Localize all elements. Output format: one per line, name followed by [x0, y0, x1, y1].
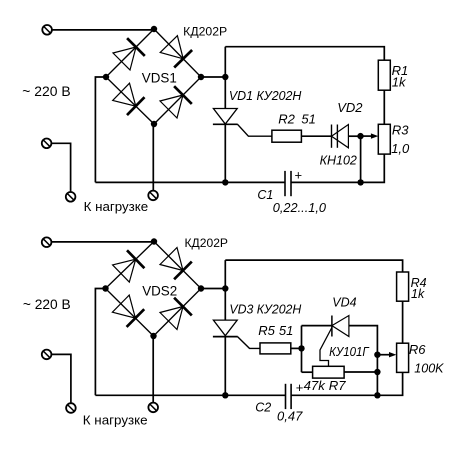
terminal X4 (load) — [148, 191, 158, 201]
node B (R5 junction) — [298, 345, 304, 351]
wire R1 to R3 — [383, 90, 385, 124]
diode VDS1 bottom-left — [113, 83, 145, 115]
wire R6 wiper arrow — [377, 352, 396, 357]
svg-text:R6: R6 — [409, 342, 426, 357]
svg-text:C1: C1 — [257, 188, 273, 202]
wire R6 bottom to rail — [291, 372, 403, 395]
svg-text:C2: C2 — [255, 401, 271, 415]
svg-text:+: + — [296, 380, 304, 395]
svg-text:0,47: 0,47 — [277, 408, 303, 423]
node C (R6 wiper junction) — [374, 352, 380, 358]
svg-text:~ 220 В: ~ 220 В — [23, 297, 71, 312]
wire thyristor2 cathode vertical lower — [224, 337, 226, 396]
capacitor C1 — [285, 171, 291, 196]
wire minus rail left part — [95, 181, 285, 183]
wire bridge2 bottom to X8 — [152, 336, 154, 403]
svg-text:51: 51 — [301, 112, 315, 127]
dinistor VD2 — [332, 125, 349, 148]
diode VDS1 top-right — [160, 36, 192, 68]
wire node B to VD4 anode — [302, 325, 332, 327]
svg-text:VDS1: VDS1 — [142, 71, 177, 86]
node thyristor cathode rail junction — [222, 179, 228, 185]
svg-text:КД202Р: КД202Р — [185, 236, 229, 250]
capacitor C2 — [286, 384, 292, 409]
node bridge2 top — [151, 238, 157, 244]
wire VD4 gate — [320, 328, 332, 367]
node bridge1 bottom — [151, 121, 157, 127]
svg-text:R7: R7 — [329, 378, 347, 393]
svg-text:1,0: 1,0 — [391, 141, 410, 156]
node bridge1 top — [151, 26, 157, 32]
diode VDS1 bottom-right — [160, 86, 192, 118]
wire bridge1 right to anode line — [201, 76, 225, 78]
node bridge1 left — [103, 74, 109, 80]
resistor R7 — [313, 366, 345, 378]
wire X5 to bridge2 top — [52, 241, 155, 243]
bridge VDS2 diamond — [106, 242, 202, 337]
resistor R2 — [272, 130, 302, 142]
wire thyristor cathode vertical lower — [224, 124, 226, 182]
svg-text:51: 51 — [279, 323, 293, 338]
wire R7 to node D — [344, 371, 377, 373]
wire bridge1 bottom to X4 — [152, 124, 154, 191]
node A rail junction — [357, 179, 363, 185]
svg-text:1k: 1k — [392, 75, 407, 90]
diode VDS2 top-right — [160, 248, 192, 280]
svg-text:К нагрузке: К нагрузке — [84, 200, 149, 214]
node bridge2 left — [102, 285, 108, 291]
node bridge2 bottom — [150, 333, 156, 339]
wire X6 to X7 — [52, 354, 71, 403]
svg-text:VD2: VD2 — [337, 100, 363, 115]
svg-text:КУ101Г: КУ101Г — [329, 344, 369, 359]
wire minus rail2 left part — [95, 394, 285, 396]
wire VD1 gate — [238, 124, 272, 136]
svg-text:К нагрузке: К нагрузке — [83, 414, 148, 428]
wire VD3 gate — [238, 337, 261, 349]
wire top rail circuit1 — [225, 47, 384, 61]
svg-text:R5: R5 — [258, 323, 275, 338]
terminal X2 — [42, 139, 52, 149]
svg-text:47k: 47k — [304, 378, 327, 393]
wire X2 to X3 — [52, 143, 71, 192]
diode VDS2 bottom-left — [112, 295, 144, 327]
node D (R7 right junction) — [374, 369, 380, 375]
node bridge1 right — [198, 74, 204, 80]
svg-text:0,22...1,0: 0,22...1,0 — [273, 201, 326, 215]
resistor R5 — [260, 343, 291, 354]
diode VDS2 top-left — [113, 250, 145, 282]
node anode junction — [222, 74, 228, 80]
svg-text:R3: R3 — [392, 123, 409, 138]
svg-text:~ 220 В: ~ 220 В — [22, 84, 70, 99]
node bridge2 right — [198, 285, 204, 291]
svg-text:100K: 100K — [414, 361, 444, 375]
terminal X6 — [42, 350, 52, 360]
diode VDS1 top-left — [113, 38, 145, 70]
wire anode2 vertical upper — [224, 260, 226, 320]
wire bridge1 left to minus rail — [95, 77, 106, 182]
node rail2 junction — [374, 392, 380, 398]
svg-text:1k: 1k — [411, 287, 425, 301]
svg-text:VDS2: VDS2 — [142, 283, 177, 298]
resistor R4 — [397, 272, 409, 301]
wire R3 wiper arrow — [361, 133, 379, 138]
wire R3 bottom to rail — [291, 154, 384, 182]
svg-text:VD3 КУ202Н: VD3 КУ202Н — [229, 303, 302, 317]
wire bridge2 right to anode line — [201, 288, 225, 290]
svg-text:VD4: VD4 — [332, 296, 356, 310]
terminal X5 — [42, 237, 52, 247]
node thyristor2 cathode rail junction — [222, 392, 228, 398]
svg-text:VD1 КУ202Н: VD1 КУ202Н — [229, 89, 302, 103]
wire node A down to rail — [360, 136, 362, 182]
thyristor VD4 — [332, 316, 349, 337]
potentiometer R6 — [397, 343, 409, 372]
terminal X8 (load) — [148, 403, 158, 413]
wire VD2 to node A — [348, 135, 360, 137]
thyristor VD1 — [213, 109, 238, 125]
potentiometer R3 — [378, 124, 390, 154]
svg-text:R2: R2 — [278, 112, 295, 127]
wire R5 to node B — [291, 347, 302, 349]
node anode2 junction — [222, 285, 228, 291]
wire anode vertical upper — [224, 47, 226, 109]
node A (VD2/R3 wiper junction) — [357, 133, 363, 139]
wire node B vertical — [301, 326, 303, 373]
wire bridge2 left to minus rail — [95, 289, 105, 396]
svg-text:КД202Р: КД202Р — [183, 25, 227, 39]
bridge VDS1 diamond — [106, 29, 201, 124]
wire X1 to bridge top — [52, 29, 154, 31]
svg-text:+: + — [295, 168, 303, 183]
wire VD4 cathode to node C — [349, 326, 378, 355]
wire node D to rail — [376, 372, 378, 395]
wire top rail circuit2 — [225, 260, 402, 272]
svg-text:КН102: КН102 — [320, 153, 358, 168]
terminal X1 — [42, 25, 52, 35]
wire R4 to R6 — [402, 301, 404, 343]
wire node B to R7 — [302, 371, 313, 373]
diode VDS2 bottom-right — [160, 298, 192, 330]
terminal X7 (load) — [66, 403, 76, 413]
terminal X3 (load) — [66, 192, 76, 202]
resistor R1 — [378, 60, 390, 90]
wire node C to node D — [376, 355, 378, 372]
thyristor VD3 — [213, 320, 238, 337]
wire R2 to VD2 — [301, 135, 331, 137]
